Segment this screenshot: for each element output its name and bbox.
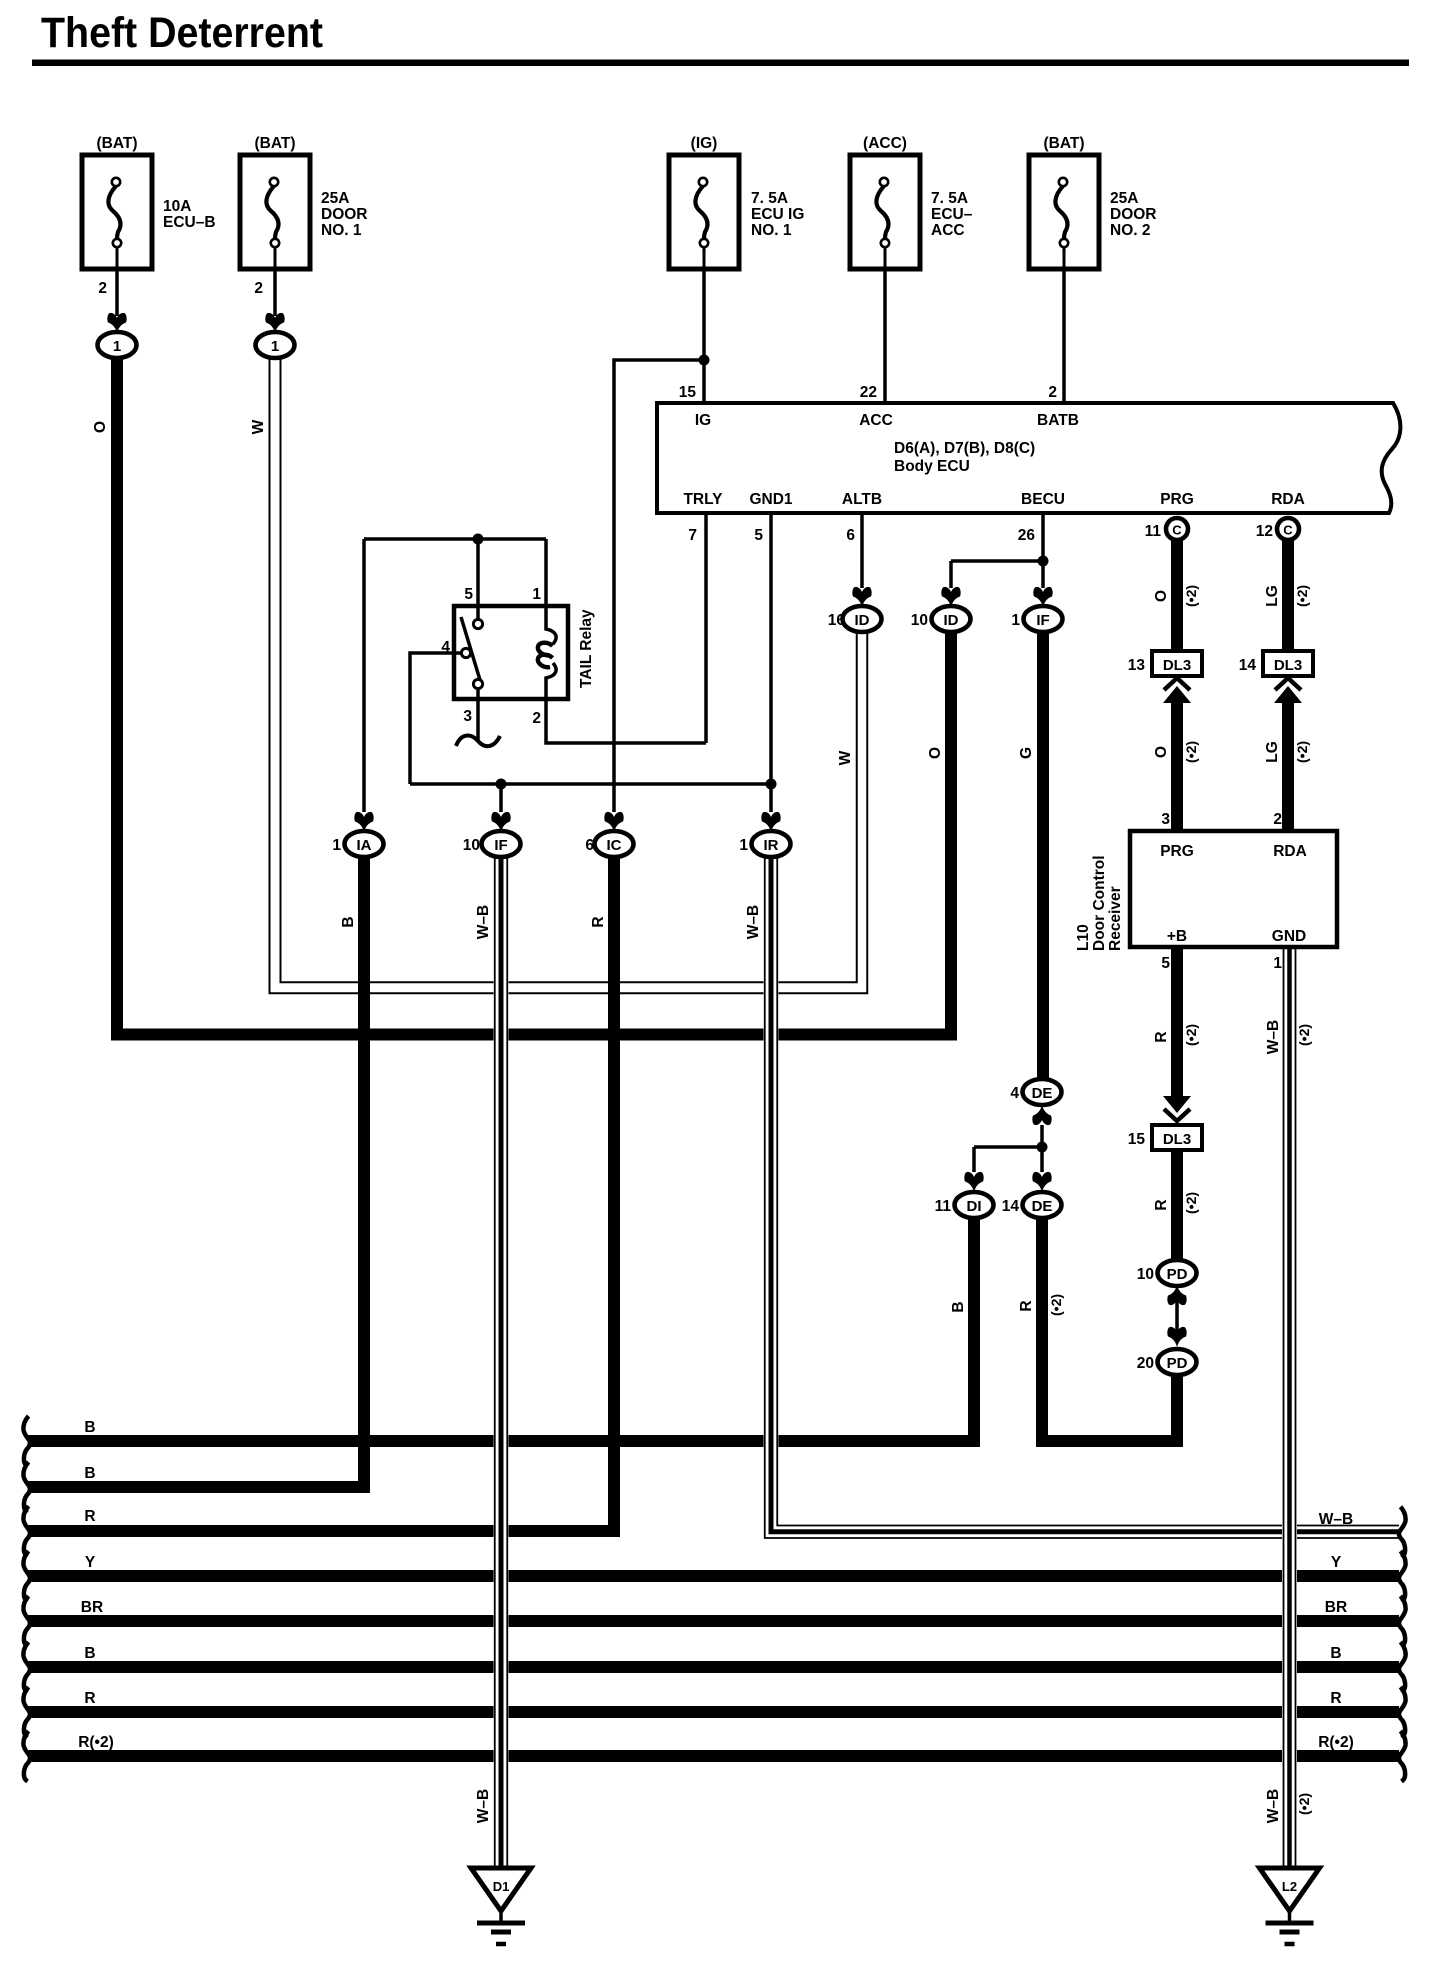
svg-text:DL3: DL3: [1163, 657, 1191, 674]
bus B row1: [28, 1435, 980, 1447]
label G IF-1 wire: [1018, 747, 1035, 759]
svg-text:DOOR: DOOR: [1110, 206, 1157, 223]
wire thin link DE-4 to DI/DE junction: [1040, 1125, 1044, 1172]
title underline: [32, 60, 1409, 67]
wire B: DI-11 down to bus row 1: [968, 1218, 980, 1441]
coil loop b: [538, 655, 553, 668]
svg-text:16: 16: [828, 612, 846, 629]
wire ECU BECU pin 26: [1041, 515, 1045, 561]
fuse F2 25A DOOR NO.1 (BAT): [240, 135, 368, 297]
svg-text:RDA: RDA: [1271, 491, 1305, 508]
svg-text:B: B: [84, 1465, 95, 1482]
svg-text:L2: L2: [1282, 1879, 1297, 1894]
svg-text:12: 12: [1256, 523, 1273, 540]
svg-text:(•2): (•2): [1296, 1793, 1312, 1815]
node at GND1 column: [766, 779, 777, 790]
svg-text:W–B: W–B: [475, 1789, 492, 1823]
node IF branch: [496, 779, 507, 790]
label W-B IF bottom: [475, 1789, 492, 1823]
label (2) GND upper: [1296, 1024, 1312, 1046]
break left bus5: [23, 1596, 30, 1647]
svg-text:Theft Deterrent: Theft Deterrent: [41, 9, 323, 57]
svg-text:6: 6: [846, 527, 855, 544]
bus B row2: [28, 1481, 370, 1493]
label O fuse1 wire: [92, 421, 109, 433]
svg-text:DOOR: DOOR: [321, 206, 368, 223]
wire ECU GND1 pin 5: [769, 515, 773, 812]
arrow into ID-16: [852, 587, 871, 607]
label (2) PRG lower: [1183, 741, 1199, 763]
svg-text:PD: PD: [1167, 1355, 1188, 1372]
break right bus8: [1399, 1731, 1406, 1782]
node relay feed: [473, 534, 484, 545]
wire ECU ALTB pin 6: [860, 515, 864, 588]
svg-text:TRLY: TRLY: [683, 491, 723, 508]
node on IG wire: [699, 355, 710, 366]
svg-text:IF: IF: [494, 837, 507, 854]
svg-text:10: 10: [911, 612, 928, 629]
svg-text:ID: ID: [944, 612, 959, 629]
svg-text:NO. 1: NO. 1: [751, 222, 792, 239]
svg-text:(•2): (•2): [1294, 741, 1310, 763]
svg-text:25A: 25A: [1110, 190, 1138, 207]
wire IA column upper (thin): [362, 539, 366, 812]
wire R(2): DE-14 down and across to PD-20: [1042, 1218, 1177, 1441]
svg-text:1: 1: [532, 586, 541, 603]
svg-text:IG: IG: [695, 412, 711, 429]
svg-text:C: C: [1172, 523, 1182, 538]
break left bus3: [23, 1506, 30, 1557]
svg-text:1: 1: [332, 837, 341, 854]
wire IF branch down: [499, 784, 503, 812]
wire relay pin 3 stub: [476, 689, 480, 740]
svg-text:B: B: [1330, 1645, 1341, 1662]
svg-text:14: 14: [1002, 1198, 1020, 1215]
svg-text:10A: 10A: [163, 198, 191, 215]
label W ALTB wire: [837, 750, 854, 765]
svg-text:IA: IA: [357, 837, 372, 854]
svg-text:6: 6: [585, 837, 594, 854]
label LG RDA upper: [1264, 585, 1281, 607]
svg-text:(•2): (•2): [1183, 741, 1199, 763]
break right bus7: [1399, 1687, 1406, 1738]
relay pin 5 terminal: [473, 619, 482, 628]
arrow into DI-11: [964, 1172, 983, 1192]
wire fuse F2 to connector 1: [273, 269, 277, 316]
svg-text:DL3: DL3: [1163, 1131, 1191, 1148]
wire W-B: receiver GND down to ground L2: [1284, 947, 1296, 1868]
svg-text:BECU: BECU: [1021, 491, 1065, 508]
label B DI wire: [950, 1301, 967, 1312]
svg-text:DI: DI: [967, 1198, 982, 1215]
L10 Door Control Receiver box: [1130, 831, 1337, 947]
break left bus2: [23, 1462, 30, 1513]
relay name TAIL Relay (rotated): [578, 609, 595, 688]
wire branch from IG node to IC column: [614, 360, 704, 812]
svg-text:PD: PD: [1167, 1266, 1188, 1283]
svg-text:5: 5: [1161, 955, 1170, 972]
node DE junction: [1037, 1142, 1048, 1153]
connector IC pin 6: [585, 831, 633, 857]
receiver name L10 Door Control Receiver (rotated): [1075, 855, 1124, 951]
label R +B upper: [1153, 1031, 1170, 1042]
svg-text:Y: Y: [1331, 1554, 1342, 1571]
svg-text:25A: 25A: [321, 190, 349, 207]
break right bus5: [1399, 1596, 1406, 1647]
svg-text:ACC: ACC: [931, 222, 965, 239]
connector IA pin 1: [332, 831, 383, 857]
svg-text:13: 13: [1128, 657, 1146, 674]
label W-B IR wire: [745, 905, 762, 939]
wire W-B: IR-1 down then right to body break: [765, 856, 1399, 1538]
label (2) RDA upper: [1294, 585, 1310, 607]
break squiggle on pin 3 wire: [456, 736, 500, 747]
svg-text:DE: DE: [1032, 1085, 1053, 1102]
label (2) DE wire: [1048, 1294, 1064, 1316]
svg-text:26: 26: [1018, 527, 1036, 544]
wire ECU TRLY pin 7: [704, 515, 708, 743]
svg-text:TAIL Relay: TAIL Relay: [578, 609, 595, 688]
arrow into ID-10: [941, 587, 960, 607]
svg-text:BATB: BATB: [1037, 412, 1079, 429]
arrow into DE-14: [1032, 1172, 1051, 1192]
svg-text:R: R: [1153, 1031, 1170, 1042]
svg-text:D6(A), D7(B), D8(C): D6(A), D7(B), D8(C): [894, 440, 1035, 457]
svg-text:B: B: [84, 1419, 95, 1436]
wire net pin4/IF/GND1 horizontal: [410, 782, 771, 786]
break left bus1: [23, 1416, 30, 1467]
svg-text:5: 5: [754, 527, 763, 544]
bus R(2) row8: [28, 1750, 1399, 1762]
svg-text:14: 14: [1239, 657, 1257, 674]
coil loop a: [538, 643, 553, 656]
svg-text:ECU IG: ECU IG: [751, 206, 804, 223]
connector 1 (fuse F2): [256, 332, 295, 358]
break left bus8: [23, 1731, 30, 1782]
svg-text:1: 1: [1273, 955, 1282, 972]
svg-text:IR: IR: [764, 837, 779, 854]
svg-text:G: G: [1018, 747, 1035, 759]
svg-text:W–B: W–B: [745, 905, 762, 939]
svg-text:(•2): (•2): [1296, 1024, 1312, 1046]
connector 1 (fuse F1): [98, 332, 137, 358]
svg-text:Door Control: Door Control: [1091, 855, 1108, 951]
W wire inner line: [281, 358, 857, 982]
label (2) GND bottom: [1296, 1793, 1312, 1815]
wire fuse F4 to ECU pin 22 (ACC): [883, 269, 887, 403]
label O PRG upper: [1153, 590, 1170, 602]
arrow into PD-20: [1167, 1327, 1186, 1347]
svg-text:4: 4: [1010, 1085, 1019, 1102]
svg-text:ALTB: ALTB: [842, 491, 882, 508]
fuse F1 10A ECU-B (BAT): [82, 135, 216, 297]
svg-text:22: 22: [860, 384, 877, 401]
svg-text:Body ECU: Body ECU: [894, 458, 970, 475]
junction DL3 pin 13: [1128, 651, 1202, 676]
svg-text:3: 3: [1161, 811, 1170, 828]
label LG RDA lower: [1264, 741, 1281, 763]
wire fuse F1 to connector 1: [115, 269, 119, 316]
svg-text:PRG: PRG: [1160, 491, 1194, 508]
bus B row6: [28, 1661, 1399, 1673]
svg-text:NO. 1: NO. 1: [321, 222, 362, 239]
svg-text:R: R: [1018, 1300, 1035, 1311]
arrow into IF-10: [491, 812, 510, 832]
svg-text:DE: DE: [1032, 1198, 1053, 1215]
svg-text:Receiver: Receiver: [1107, 886, 1124, 951]
svg-text:R(•2): R(•2): [78, 1734, 114, 1751]
label (2) RDA lower: [1294, 741, 1310, 763]
svg-text:2: 2: [1273, 811, 1282, 828]
label W-B IF wire: [475, 905, 492, 939]
wire O net: fuse1 down, across, up to ID-10: [117, 357, 951, 1035]
svg-text:ECU–B: ECU–B: [163, 214, 216, 231]
svg-text:ID: ID: [855, 612, 870, 629]
svg-text:IC: IC: [607, 837, 622, 854]
relay switch blade: [461, 617, 480, 680]
bus Y row4: [28, 1570, 1399, 1582]
wire O: DL3-13 to receiver PRG pin 3: [1171, 698, 1183, 831]
arrow into IC-6: [604, 812, 623, 832]
svg-text:R(•2): R(•2): [1318, 1734, 1354, 1751]
svg-text:(•2): (•2): [1048, 1294, 1064, 1316]
svg-text:15: 15: [679, 384, 697, 401]
svg-text:Y: Y: [85, 1554, 96, 1571]
svg-text:W–B: W–B: [1319, 1511, 1353, 1528]
relay coil: [546, 606, 556, 699]
wire R: receiver +B pin 5 down to DL3-15: [1171, 947, 1183, 1100]
label (2) +B upper: [1183, 1024, 1199, 1046]
connector DE pin 4: [1010, 1079, 1061, 1105]
svg-text:O: O: [1153, 590, 1170, 602]
svg-text:BR: BR: [81, 1599, 103, 1616]
arrow into connector 1 (fuse F2): [265, 313, 284, 333]
svg-text:(•2): (•2): [1183, 1024, 1199, 1046]
svg-text:(•2): (•2): [1183, 1192, 1199, 1214]
svg-text:B: B: [950, 1301, 967, 1312]
fuse F4 7.5A ECU-ACC (ACC): [850, 135, 973, 269]
svg-text:O: O: [1153, 746, 1170, 758]
connector ID pin 10: [911, 606, 971, 632]
wire relay pin 5: [476, 539, 480, 620]
wire net pin1/pin5/IA: horizontal: [364, 537, 546, 541]
arrow into IF-1: [1033, 587, 1052, 607]
svg-text:+B: +B: [1167, 928, 1187, 945]
svg-text:B: B: [340, 916, 357, 927]
svg-text:LG: LG: [1264, 585, 1281, 607]
arrow into IA: [354, 812, 373, 832]
svg-text:(BAT): (BAT): [254, 135, 295, 152]
svg-text:RDA: RDA: [1273, 843, 1307, 860]
svg-text:1: 1: [1011, 612, 1020, 629]
svg-text:2: 2: [98, 280, 107, 297]
svg-text:IF: IF: [1036, 612, 1049, 629]
svg-text:10: 10: [463, 837, 480, 854]
label R IC wire: [590, 916, 607, 927]
svg-text:BR: BR: [1325, 1599, 1347, 1616]
svg-text:ACC: ACC: [859, 412, 893, 429]
label W fuse2 wire: [250, 419, 267, 434]
connector DE pin 14: [1002, 1192, 1062, 1218]
connector C pin 12 (RDA): [1277, 518, 1299, 540]
connector PD pin 10: [1137, 1260, 1197, 1286]
svg-text:GND1: GND1: [749, 491, 792, 508]
wire LG: DL3-14 to receiver RDA pin 2: [1282, 698, 1294, 831]
arrow into PD-10 (pointing up): [1167, 1285, 1186, 1305]
break left bus6: [23, 1642, 30, 1693]
relay box: [454, 606, 568, 699]
svg-text:R: R: [590, 916, 607, 927]
relay pin 4 terminal: [461, 648, 470, 657]
break right bus4: [1399, 1551, 1406, 1602]
svg-text:B: B: [84, 1645, 95, 1662]
svg-text:W: W: [250, 419, 267, 434]
svg-text:(BAT): (BAT): [96, 135, 137, 152]
svg-text:R: R: [84, 1690, 95, 1707]
svg-text:(BAT): (BAT): [1043, 135, 1084, 152]
wire to IF-1 connector: [1041, 561, 1045, 588]
arrow into connector 1 (fuse F1): [107, 313, 126, 333]
svg-text:1: 1: [271, 338, 279, 355]
label O ID-10 wire: [927, 747, 944, 759]
chevron splice into DL3-14: [1274, 678, 1302, 703]
svg-text:1: 1: [739, 837, 748, 854]
svg-text:2: 2: [254, 280, 263, 297]
arrow into IR-1: [761, 812, 780, 832]
node BECU branch: [1038, 556, 1049, 567]
wire fuse F5 to ECU pin 2 (BATB): [1062, 269, 1066, 403]
label O PRG lower: [1153, 746, 1170, 758]
label R DE wire: [1018, 1300, 1035, 1311]
wire G net: IF-1 down to DE-4: [1037, 631, 1049, 1081]
svg-text:(•2): (•2): [1294, 585, 1310, 607]
wire W-B: IF-10 down to ground D1: [495, 856, 508, 1868]
svg-text:5: 5: [464, 586, 473, 603]
wire relay pin 1: [544, 539, 548, 608]
wire R: DL3-15 to PD-10: [1171, 1146, 1183, 1261]
wire junction horizontal to DI-11: [974, 1145, 1042, 1149]
arrow into DE-4 (pointing up): [1032, 1105, 1051, 1125]
wire relay pin 2 to TRLY: [546, 699, 706, 743]
label B IA wire: [340, 916, 357, 927]
ECU D6(A) D7(B) D8(C) Body ECU: [657, 403, 1400, 513]
junction DL3 pin 15: [1128, 1125, 1202, 1150]
svg-text:R: R: [1153, 1199, 1170, 1210]
ground D1: [471, 1868, 531, 1944]
break right bus6: [1399, 1642, 1406, 1693]
svg-text:R: R: [84, 1508, 95, 1525]
wire thin link PD-10 to PD-20: [1175, 1300, 1179, 1335]
svg-text:11: 11: [1145, 523, 1162, 540]
connector PD pin 20: [1137, 1349, 1197, 1375]
svg-text:PRG: PRG: [1160, 843, 1194, 860]
connector IF pin 10: [463, 831, 521, 857]
W wire outer line: [270, 358, 868, 993]
bus BR row5: [28, 1615, 1399, 1627]
wire LG: RDA C to DL3-14: [1282, 538, 1294, 653]
junction DL3 pin 14: [1239, 651, 1313, 676]
fuse F5 25A DOOR NO.2 (BAT): [1029, 135, 1157, 269]
wire fuse F3 to ECU pin 15 (IG): [702, 269, 706, 403]
wire to ID-10 connector: [949, 561, 953, 588]
wire down to DI-11 arrow: [972, 1147, 976, 1172]
svg-text:DL3: DL3: [1274, 657, 1302, 674]
svg-text:W–B: W–B: [475, 905, 492, 939]
wire B: IA down to bus row 2: [358, 856, 370, 1493]
label W-B GND upper: [1265, 1020, 1282, 1054]
connector IF pin 1: [1011, 606, 1062, 632]
svg-text:O: O: [927, 747, 944, 759]
svg-text:1: 1: [113, 338, 121, 355]
svg-text:L10: L10: [1075, 924, 1092, 951]
svg-text:W–B: W–B: [1265, 1789, 1282, 1823]
label (2) +B lower: [1183, 1192, 1199, 1214]
svg-text:(ACC): (ACC): [863, 135, 907, 152]
svg-text:7. 5A: 7. 5A: [931, 190, 968, 207]
svg-text:2: 2: [532, 710, 541, 727]
svg-text:C: C: [1283, 523, 1293, 538]
connector C pin 11 (PRG): [1166, 518, 1188, 540]
break left bus7: [23, 1687, 30, 1738]
svg-text:3: 3: [463, 708, 472, 725]
svg-text:2: 2: [1048, 384, 1057, 401]
connector DI pin 11: [935, 1192, 994, 1218]
svg-text:(IG): (IG): [691, 135, 718, 152]
svg-text:(•2): (•2): [1183, 585, 1199, 607]
relay pin 3 terminal: [473, 679, 482, 688]
break right W-B row: [1399, 1507, 1406, 1558]
svg-text:LG: LG: [1264, 741, 1281, 763]
svg-text:15: 15: [1128, 1131, 1146, 1148]
svg-text:GND: GND: [1272, 928, 1306, 945]
svg-text:R: R: [1330, 1690, 1341, 1707]
svg-text:D1: D1: [493, 1879, 510, 1894]
label R +B lower: [1153, 1199, 1170, 1210]
wire W net white underlay: [270, 358, 868, 993]
svg-text:11: 11: [935, 1198, 952, 1215]
svg-text:W: W: [837, 750, 854, 765]
bus R row7: [28, 1706, 1399, 1718]
wire O: PRG C to DL3-13: [1171, 538, 1183, 653]
label W-B GND bottom: [1265, 1789, 1282, 1823]
svg-text:7. 5A: 7. 5A: [751, 190, 788, 207]
label (2) PRG upper: [1183, 585, 1199, 607]
fuse F3 7.5A ECU IG NO.1 (IG): [669, 135, 804, 269]
wire R: IC down to bus row 3: [608, 856, 620, 1537]
svg-text:20: 20: [1137, 1355, 1154, 1372]
wire relay pin 4 to IF/GND1 net: [410, 653, 461, 784]
svg-text:W–B: W–B: [1265, 1020, 1282, 1054]
svg-text:7: 7: [688, 527, 697, 544]
bus R row3: [28, 1525, 620, 1537]
break left bus4: [23, 1551, 30, 1602]
svg-text:ECU–: ECU–: [931, 206, 973, 223]
connector ID pin 16: [828, 606, 882, 632]
connector IR pin 1: [739, 831, 790, 857]
chevron splice into DL3-13: [1163, 678, 1191, 703]
svg-text:O: O: [92, 421, 109, 433]
ground L2: [1260, 1868, 1320, 1944]
chevron splice into DL3-15: [1163, 1096, 1191, 1121]
wire BECU branch horizontal: [951, 559, 1043, 563]
svg-text:10: 10: [1137, 1266, 1154, 1283]
svg-text:NO. 2: NO. 2: [1110, 222, 1150, 239]
